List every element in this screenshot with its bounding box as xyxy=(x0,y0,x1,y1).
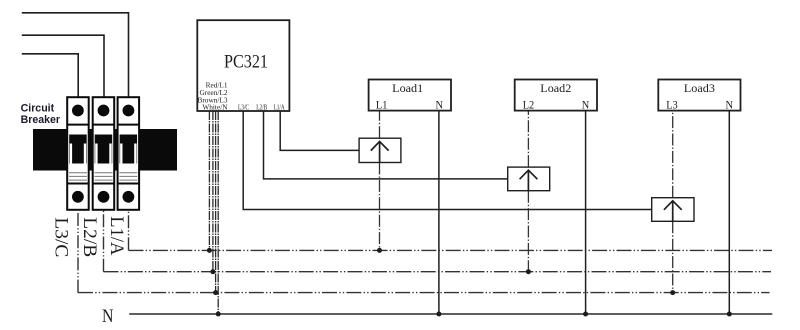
Load1 box xyxy=(369,80,451,112)
CT lead wire L2/B to CT2 xyxy=(264,111,508,179)
junction dot L2 phase / bus L2 xyxy=(526,269,531,274)
svg-text:Load2: Load2 xyxy=(540,81,571,95)
neutral line load1 xyxy=(438,111,440,314)
CT1 current transformer xyxy=(359,138,401,162)
svg-text:Circuit: Circuit xyxy=(21,102,55,114)
wire phase input A (top) xyxy=(22,13,129,98)
wire phase input C (bottom) xyxy=(22,54,78,98)
junction dot green wire / bus L2 xyxy=(210,269,215,274)
junction dot N load1 xyxy=(436,312,441,317)
neutral line load2 xyxy=(585,111,587,314)
CT lead wire L1/A to CT1 xyxy=(280,111,359,150)
bus L2/B (dash-dot from breaker pole 2) xyxy=(103,210,105,272)
junction dot N load3 xyxy=(727,312,732,317)
CT3 current transformer xyxy=(652,198,694,222)
CT lead wire L3/C to CT3 xyxy=(243,111,652,210)
svg-text:N: N xyxy=(102,307,114,327)
PC321 sense wire Green/L2 xyxy=(212,111,214,272)
junction dot L1 phase / bus L1 xyxy=(377,248,382,253)
svg-text:PC321: PC321 xyxy=(224,53,268,73)
bus N (solid) xyxy=(129,313,772,315)
junction dot white wire / bus N xyxy=(216,312,221,317)
junction dot N load2 xyxy=(583,312,588,317)
svg-text:Load3: Load3 xyxy=(684,81,715,95)
load phase line L1 (dash-dot) xyxy=(379,111,381,139)
PC321 sense wire White/N xyxy=(217,111,219,314)
CT2 current transformer xyxy=(508,167,550,191)
svg-text:L3: L3 xyxy=(666,98,678,112)
circuit breaker pole 3 body xyxy=(118,97,140,210)
svg-text:L1/A: L1/A xyxy=(106,216,126,256)
load phase line L2 (dash-dot) xyxy=(527,111,529,168)
svg-text:Load1: Load1 xyxy=(392,81,423,95)
meter PC321 box xyxy=(197,20,289,111)
svg-text:White/N: White/N xyxy=(202,102,228,111)
svg-text:L3/C: L3/C xyxy=(51,217,71,257)
PC321 sense wire Brown/L3 xyxy=(215,111,217,293)
svg-text:L1/A: L1/A xyxy=(274,103,286,112)
junction dot red wire / bus L1 xyxy=(207,248,212,253)
circuit breaker pole 1 body xyxy=(67,97,89,210)
svg-text:N: N xyxy=(725,98,733,112)
bus L1/A (dash-dot from breaker pole 3) xyxy=(128,210,130,251)
junction dot brown wire / bus L3 xyxy=(213,290,218,295)
PC321 sense wire Red/L1 xyxy=(208,111,210,250)
svg-text:L2/B: L2/B xyxy=(256,103,267,112)
wire phase input B (middle) xyxy=(22,35,104,97)
svg-text:L3/C: L3/C xyxy=(238,103,249,112)
svg-text:Breaker: Breaker xyxy=(21,114,60,126)
svg-text:N: N xyxy=(582,98,590,112)
svg-text:L2: L2 xyxy=(523,98,535,112)
svg-text:L2/B: L2/B xyxy=(79,217,99,257)
load phase line L3 (dash-dot) xyxy=(672,111,674,198)
circuit breaker bus bar (black) xyxy=(33,129,177,171)
bus L3/C (dash-dot from breaker pole 1) xyxy=(77,210,79,293)
svg-text:N: N xyxy=(435,98,443,112)
Load2 box xyxy=(515,80,597,112)
neutral line load3 xyxy=(728,111,730,314)
circuit breaker pole 2 body xyxy=(93,97,115,210)
svg-text:L1: L1 xyxy=(376,98,388,112)
Load3 box xyxy=(658,80,740,112)
junction dot L3 phase / bus L3 xyxy=(670,290,675,295)
